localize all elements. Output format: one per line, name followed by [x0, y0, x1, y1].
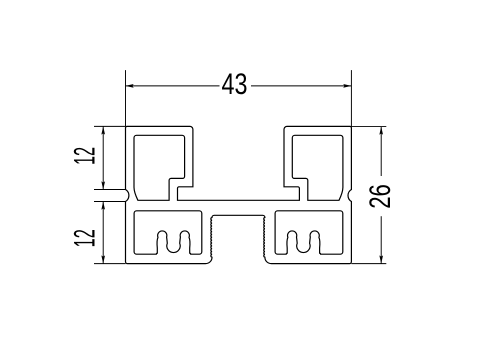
svg-text:43: 43 [222, 68, 248, 101]
svg-text:12: 12 [68, 229, 101, 247]
svg-text:26: 26 [364, 184, 397, 209]
svg-text:12: 12 [68, 147, 101, 165]
